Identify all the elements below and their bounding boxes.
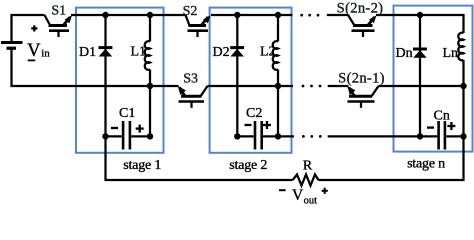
svg-text:L2: L2 — [260, 45, 276, 60]
svg-text:S(2n-2): S(2n-2) — [337, 0, 384, 16]
svg-text:V: V — [27, 41, 41, 61]
svg-text:C2: C2 — [246, 106, 262, 121]
svg-text:out: out — [304, 195, 318, 206]
svg-text:S1: S1 — [51, 3, 66, 18]
svg-text:D2: D2 — [213, 45, 230, 60]
svg-text:S3: S3 — [183, 71, 198, 86]
svg-text:D1: D1 — [79, 45, 96, 60]
svg-text:in: in — [41, 48, 50, 60]
svg-text:stage 2: stage 2 — [229, 158, 267, 173]
svg-text:stage 1: stage 1 — [123, 158, 161, 173]
svg-text:V: V — [292, 187, 304, 204]
svg-text:S(2n-1): S(2n-1) — [338, 70, 385, 86]
svg-text:Cn: Cn — [434, 109, 450, 124]
svg-text:L1: L1 — [131, 45, 147, 60]
svg-text:R: R — [303, 158, 313, 173]
svg-text:Ln: Ln — [443, 46, 459, 61]
svg-text:stage n: stage n — [407, 157, 445, 172]
svg-text:Dn: Dn — [396, 46, 413, 61]
svg-text:C1: C1 — [119, 106, 135, 121]
svg-text:S2: S2 — [183, 4, 198, 19]
